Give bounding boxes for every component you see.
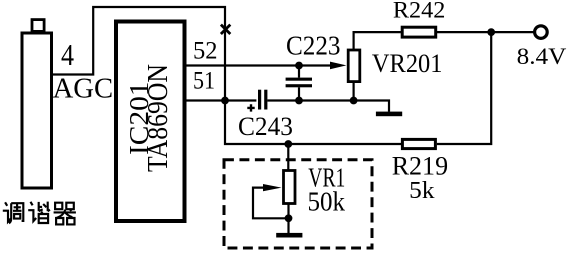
svg-text:C223: C223 (286, 30, 341, 61)
junction dot VR201 bottom (350, 97, 358, 105)
potentiometer VR1 body (284, 171, 296, 204)
dashed box around VR1 (224, 160, 372, 248)
svg-text:R219: R219 (392, 151, 448, 181)
VR201 top lead to R242 (354, 32, 401, 50)
resistor R242 body (402, 27, 436, 37)
svg-text:51: 51 (193, 68, 215, 95)
svg-text:TA869ON: TA869ON (143, 64, 174, 172)
tuner antenna stub (32, 20, 44, 32)
junction dot VR1 bottom (285, 214, 293, 222)
IC201 block (116, 22, 185, 222)
svg-text:AGC: AGC (53, 74, 114, 105)
capacitor C223 plates (286, 78, 312, 81)
resistor R219 body (402, 139, 435, 148)
wire C243 to C223 bottom node (267, 99, 299, 101)
wire R219 left to VR1 node (288, 143, 402, 145)
VR1 wiper loop (253, 188, 289, 219)
svg-text:VR201: VR201 (372, 48, 443, 78)
wire C223 bottom node to VR201 bottom node (299, 99, 354, 101)
8.4V terminal circle (535, 26, 548, 39)
capacitor C223 top lead (298, 66, 300, 78)
VR1 top lead (287, 144, 289, 171)
capacitor C223 bottom lead (298, 87, 300, 100)
wire 8.4V rail down to R219 right (437, 32, 491, 144)
VR1 ground lead (287, 218, 289, 233)
wire AGC from tuner up to top rail and down to pin 51 node (52, 7, 226, 101)
ground symbol right of VR201 (376, 112, 402, 117)
svg-text:5k: 5k (409, 178, 434, 204)
junction dot VR1 top node (284, 140, 292, 148)
wire VR201 bottom to ground (354, 101, 389, 112)
wire VR1 node to pin51 riser (225, 99, 288, 144)
svg-text:4: 4 (61, 37, 74, 72)
junction dot C223 bottom (295, 97, 303, 105)
junction dot at 8.4V rail (487, 28, 495, 36)
junction dot pin51/riser (221, 97, 229, 105)
wire pin 51 to C243 (187, 99, 257, 101)
tuner block (22, 33, 52, 188)
svg-text:C243: C243 (238, 111, 293, 141)
wire pin 52 to C223 node (187, 64, 300, 66)
svg-text:50k: 50k (308, 186, 346, 216)
junction dot C223 top (295, 62, 303, 70)
X mark (cut point) on AGC line (221, 25, 230, 34)
VR1 bottom lead (287, 204, 289, 219)
svg-text:8.4V: 8.4V (517, 44, 567, 70)
capacitor C243 plates (258, 90, 261, 110)
arrow into VR1 wiper (263, 184, 282, 191)
svg-text:R242: R242 (393, 0, 446, 23)
VR201 bottom lead (353, 82, 355, 101)
wire C223 node to VR201 wiper arrow (299, 64, 332, 66)
potentiometer VR201 body (348, 50, 360, 82)
arrow into VR201 wiper (330, 62, 346, 70)
plus sign of C243 (247, 104, 254, 111)
ground symbol below VR1 (276, 233, 302, 238)
tuner label 调谐器 (hand-drawn glyphs) (3, 202, 76, 225)
svg-text:52: 52 (193, 38, 218, 65)
wire R242 right to 8.4V terminal (436, 31, 535, 33)
